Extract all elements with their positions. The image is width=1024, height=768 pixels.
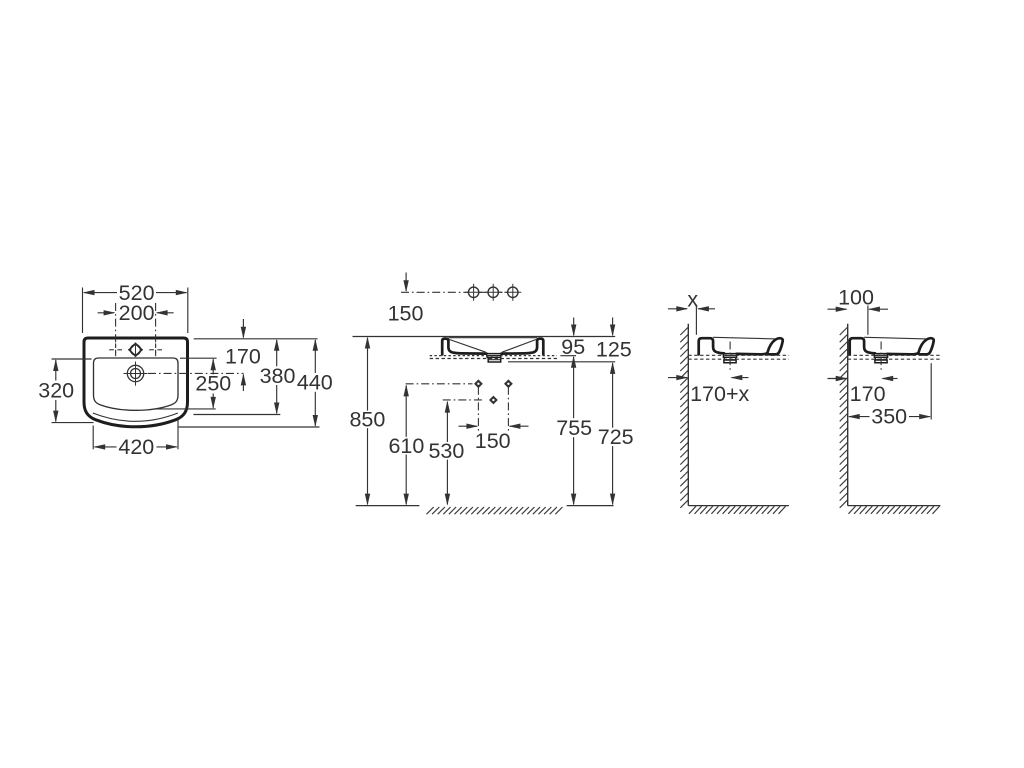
right faucet hole cross: [149, 343, 162, 356]
svg-text:170+x: 170+x: [690, 382, 749, 406]
bowl bottom extension line (250 bottom): [155, 408, 216, 410]
dimension 170+x: [668, 375, 750, 406]
ground line (side view 2): [848, 505, 941, 507]
countertop dotted line 2 (side view 1): [688, 358, 789, 360]
wall line (side view 1): [687, 324, 689, 506]
ground line (front view): [356, 505, 420, 507]
countertop dotted line 2 (front view): [430, 358, 557, 360]
svg-text:x: x: [687, 287, 698, 311]
faucet centerline dash-dot: [401, 291, 521, 293]
150 leader arrow (faucet line): [388, 273, 424, 326]
wall line (side view 2): [847, 324, 849, 506]
dimension 170 (top view): [225, 319, 261, 391]
dimension 250: [195, 358, 231, 409]
svg-text:250: 250: [195, 372, 231, 396]
dimension 530: [428, 401, 464, 506]
dimension 125: [596, 318, 632, 362]
dimension 200: [98, 301, 174, 325]
dimension 850: [349, 337, 385, 506]
dimension 380: [260, 339, 296, 415]
front edge extension line (380 bottom): [193, 414, 280, 416]
rim top thin line (front view): [448, 337, 537, 339]
dimension 420: [93, 420, 178, 460]
outline bottom extension line (440 bottom): [179, 426, 320, 428]
back rim profile: [699, 338, 724, 354]
svg-text:440: 440: [297, 371, 333, 395]
rim top thin line (side): [713, 337, 775, 339]
125 reference line: [508, 361, 615, 363]
countertop dotted line 1 (side view 2): [848, 354, 941, 356]
rim inner extension line (side view 2): [867, 306, 869, 335]
supply vertical dash-dot right: [507, 387, 509, 431]
svg-text:725: 725: [598, 425, 634, 449]
dimension 320: [38, 359, 93, 423]
basin front edge arc (top view): [93, 413, 178, 421]
deck extension line (250 top): [180, 357, 217, 359]
faucet hole circle 3: [504, 284, 521, 301]
supply point marker right: [504, 379, 513, 388]
svg-text:200: 200: [119, 301, 155, 325]
drain trap (front view): [487, 354, 502, 362]
basin profile (side view 2): [850, 337, 934, 373]
front rim blade (side): [767, 338, 782, 354]
svg-text:95: 95: [561, 335, 585, 359]
faucet hole circle 1: [465, 284, 482, 301]
svg-text:380: 380: [260, 364, 296, 388]
front edge extension line (350 right): [930, 363, 932, 419]
bowl interior slope right (front view): [502, 340, 536, 353]
svg-text:850: 850: [349, 408, 385, 432]
supply point marker left: [474, 379, 483, 388]
wall hatch (side view 1): [680, 327, 688, 508]
ground hatch (side view 1): [689, 506, 786, 514]
dimension 725: [598, 362, 634, 506]
supply centerline dash-dot horizontal lower: [443, 399, 482, 401]
drain trap (side): [723, 354, 736, 363]
dimension x: [668, 287, 715, 311]
supply vertical dash-dot left: [477, 387, 479, 431]
top reference extension line (right of top view): [194, 338, 318, 340]
svg-text:170: 170: [850, 382, 886, 406]
basin profile (side view 1): [699, 337, 783, 373]
right rim profile (front view): [501, 339, 543, 355]
countertop dotted line 1 (front view): [430, 355, 557, 357]
ground hatch (side view 2): [849, 506, 940, 514]
svg-text:530: 530: [428, 439, 464, 463]
back edge extension line (side view 1): [695, 305, 697, 335]
bowl bottom right of drain (side): [736, 353, 766, 354]
basin top reference line (850 top): [353, 336, 616, 338]
countertop dotted line 2 (side view 2): [848, 358, 941, 360]
dimension 150 (supply spacing): [459, 424, 529, 454]
svg-text:610: 610: [388, 434, 424, 458]
dimension 610: [388, 384, 424, 505]
dimension 170 (side view 2): [828, 376, 898, 406]
95 reference line: [560, 355, 576, 357]
svg-text:150: 150: [475, 429, 511, 453]
svg-text:320: 320: [38, 378, 74, 402]
dimension 755: [556, 356, 592, 506]
dimension 520: [83, 281, 188, 333]
washbasin outer outline (top view): [84, 338, 188, 427]
supply centerline dash-dot horizontal upper: [406, 383, 473, 385]
countertop dotted line 1 (side view 1): [688, 354, 789, 356]
svg-text:150: 150: [388, 301, 424, 325]
dimension 100: [828, 286, 889, 312]
hole centerline left dash-dot: [115, 303, 117, 354]
dimension 440: [297, 339, 333, 427]
hole centerline right dash-dot: [155, 303, 157, 354]
svg-text:350: 350: [871, 405, 907, 429]
center faucet hole symbol: [128, 343, 143, 357]
inner bowl rim (top view): [94, 358, 179, 410]
svg-text:420: 420: [118, 435, 154, 459]
svg-text:170: 170: [225, 344, 261, 368]
left faucet hole cross: [109, 343, 122, 356]
dimension 350: [848, 405, 932, 429]
faucet hole circle 2: [485, 284, 502, 301]
svg-text:755: 755: [556, 416, 592, 440]
svg-text:125: 125: [596, 338, 632, 362]
supply point marker center: [489, 396, 498, 405]
drain centerline dash-dot (side): [729, 342, 731, 373]
left rim profile (front view): [442, 339, 486, 355]
bowl interior slope left (front view): [450, 340, 486, 353]
dimension 95: [561, 318, 585, 360]
drain centerline dash-dot (top view): [148, 372, 244, 374]
ground line (side view 1): [688, 505, 789, 507]
drain hole (top view): [124, 362, 148, 386]
svg-text:100: 100: [838, 286, 874, 310]
wall hatch (side view 2): [840, 327, 848, 508]
ground hatch (front view): [427, 507, 563, 514]
